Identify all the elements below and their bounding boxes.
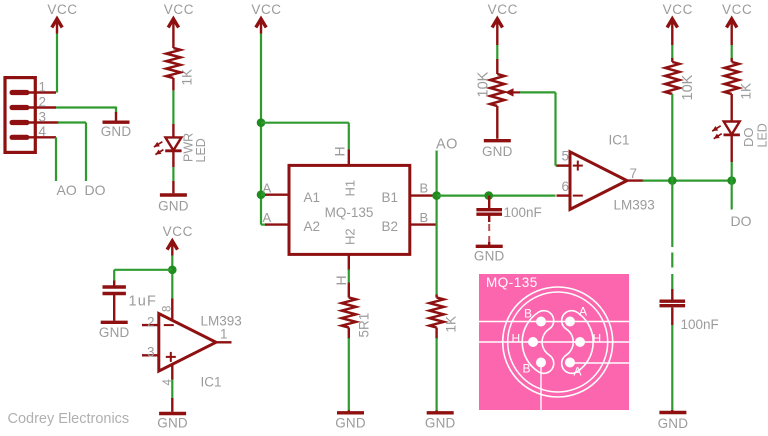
svg-text:1K: 1K	[444, 316, 459, 333]
svg-text:AO: AO	[436, 136, 458, 152]
svg-text:DO: DO	[741, 128, 756, 148]
svg-text:A: A	[263, 180, 272, 195]
svg-text:1: 1	[39, 79, 47, 94]
svg-text:100nF: 100nF	[504, 205, 542, 220]
svg-text:VCC: VCC	[164, 2, 194, 17]
svg-text:VCC: VCC	[251, 2, 281, 17]
svg-text:3: 3	[147, 344, 155, 359]
svg-text:H: H	[593, 332, 602, 346]
svg-text:GND: GND	[99, 325, 130, 340]
svg-text:3: 3	[39, 109, 47, 124]
svg-text:1uF: 1uF	[129, 294, 158, 310]
svg-text:4: 4	[39, 124, 47, 139]
svg-text:GND: GND	[101, 124, 132, 139]
svg-text:H: H	[333, 275, 349, 285]
svg-text:A2: A2	[304, 219, 321, 234]
svg-text:H: H	[332, 146, 348, 156]
svg-text:H1: H1	[343, 180, 358, 197]
svg-text:LM393: LM393	[201, 313, 242, 328]
svg-text:1K: 1K	[180, 69, 195, 86]
svg-text:IC1: IC1	[609, 133, 630, 148]
svg-text:6: 6	[562, 179, 570, 194]
svg-text:B: B	[524, 307, 532, 321]
svg-text:GND: GND	[335, 416, 366, 431]
svg-text:2: 2	[147, 315, 155, 330]
svg-text:1: 1	[220, 327, 228, 342]
svg-text:VCC: VCC	[163, 224, 193, 239]
svg-text:LED: LED	[756, 123, 768, 147]
svg-text:A: A	[574, 365, 582, 379]
svg-text:VCC: VCC	[47, 2, 77, 17]
svg-text:8: 8	[162, 306, 174, 312]
svg-text:B2: B2	[382, 219, 399, 234]
svg-text:VCC: VCC	[663, 2, 693, 17]
svg-text:A: A	[579, 305, 587, 319]
svg-text:GND: GND	[474, 249, 505, 264]
svg-text:GND: GND	[158, 199, 189, 214]
svg-text:100nF: 100nF	[681, 317, 719, 332]
svg-text:MQ-135: MQ-135	[325, 205, 374, 220]
svg-text:IC1: IC1	[201, 374, 222, 389]
svg-text:B1: B1	[382, 190, 399, 205]
svg-text:5: 5	[562, 149, 570, 164]
svg-text:B: B	[420, 210, 429, 225]
svg-text:5R1: 5R1	[357, 313, 372, 338]
svg-text:DO: DO	[85, 182, 106, 198]
svg-text:10K: 10K	[680, 74, 696, 100]
svg-text:DO: DO	[731, 213, 752, 229]
svg-text:AO: AO	[57, 182, 77, 198]
svg-text:GND: GND	[482, 144, 513, 159]
svg-text:10K: 10K	[476, 71, 492, 97]
svg-text:7: 7	[630, 166, 638, 181]
svg-text:H: H	[512, 332, 521, 346]
svg-text:1K: 1K	[739, 83, 754, 100]
svg-text:LED: LED	[194, 138, 208, 162]
svg-text:A1: A1	[304, 190, 321, 205]
svg-text:VCC: VCC	[722, 2, 752, 17]
svg-text:H2: H2	[343, 228, 358, 245]
svg-text:VCC: VCC	[488, 2, 518, 17]
svg-text:MQ-135: MQ-135	[486, 275, 538, 290]
svg-text:2: 2	[39, 94, 47, 109]
svg-text:LM393: LM393	[614, 198, 655, 213]
svg-text:GND: GND	[157, 415, 188, 430]
svg-text:GND: GND	[658, 416, 689, 431]
svg-text:Codrey Electronics: Codrey Electronics	[8, 411, 130, 427]
svg-text:B: B	[420, 180, 429, 195]
svg-text:4: 4	[162, 379, 174, 386]
svg-text:A: A	[263, 210, 272, 225]
svg-text:B: B	[523, 362, 531, 376]
svg-text:GND: GND	[425, 416, 456, 431]
